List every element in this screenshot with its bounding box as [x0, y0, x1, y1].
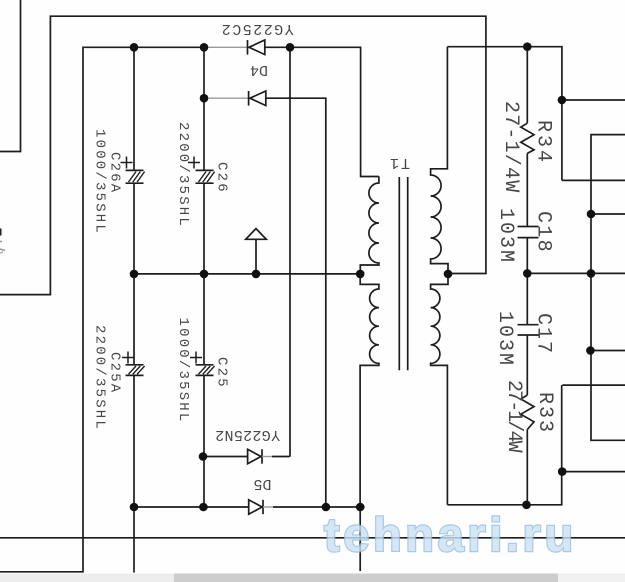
node right out y=100: [558, 96, 567, 105]
wire R34 to C18: [526, 153, 528, 226]
wire full width bottom: [0, 537, 625, 539]
capacitor C25: [196, 365, 215, 376]
node right out y=350.5: [586, 346, 595, 355]
node center / right tap: [444, 270, 453, 279]
wire top-left stub: [0, 0, 21, 152]
node top bus / rail 290: [286, 43, 295, 52]
node D4 row / rail 204: [200, 94, 209, 103]
wire R34 top lead: [526, 47, 528, 124]
svg-text:1000/35SHL: 1000/35SHL: [175, 318, 191, 424]
wire rail x=204 middle: [203, 183, 205, 365]
capacitor C26A: [126, 170, 145, 183]
node top bus / rail 204: [200, 43, 209, 52]
plus sign of C25A: [122, 352, 134, 364]
node center / rail 204: [200, 270, 209, 279]
transformer T1 left lower winding: [360, 274, 379, 507]
wire right bus top: [447, 47, 562, 181]
wire rail x=290: [289, 47, 291, 456]
svg-text:tehnari.ru: tehnari.ru: [324, 508, 577, 561]
node center out / x=591: [587, 269, 596, 278]
wire bottom bus left part: [134, 506, 249, 508]
wire rail x=204 upper: [203, 47, 205, 170]
wire grey anode lead of YG225C2: [204, 46, 248, 48]
wire outer border loop to right center tap: [0, 16, 486, 294]
svg-text:27-1/4W: 27-1/4W: [502, 380, 525, 453]
svg-text:D5: D5: [253, 475, 271, 492]
svg-text:D4: D4: [250, 61, 268, 78]
node bottom bus / D4 branch: [322, 503, 331, 512]
plus sign of C25: [190, 352, 202, 364]
node center / C17 C18: [523, 269, 532, 278]
node center / left tap: [356, 270, 365, 279]
bottom scrollbar band right: [558, 574, 625, 582]
wire horizontal out y=471.6: [562, 471, 625, 473]
wire R33 bottom lead: [526, 430, 528, 505]
wire C18 to center: [526, 238, 528, 274]
wire horizontal out y=100: [562, 99, 625, 101]
svg-text:2200/35SHL: 2200/35SHL: [92, 325, 108, 431]
wire top bus from diode to transformer drop: [265, 47, 379, 176]
wire D4 branch down to bottom bus: [266, 98, 326, 507]
wire YG225N2 row lead: [203, 456, 248, 458]
node right bottom bus / R33: [522, 501, 531, 510]
wire YG225N2 row to rail: [272, 456, 289, 459]
svg-text:2200/35SHL: 2200/35SHL: [175, 122, 191, 228]
left edge text fragment: [0, 229, 5, 254]
transformer T1 right upper winding: [431, 47, 448, 274]
transformer T1 left upper winding: [360, 177, 379, 274]
svg-text:T1: T1: [388, 154, 410, 171]
capacitor C26: [196, 170, 215, 183]
svg-text:C18: C18: [532, 211, 555, 254]
svg-text:103M: 103M: [494, 208, 517, 264]
node center / rail 134: [130, 270, 139, 279]
wire rail x=134 upper: [133, 47, 135, 170]
svg-text:1000/35SHL: 1000/35SHL: [92, 129, 108, 235]
resistor R34: [521, 123, 534, 153]
svg-text:103M: 103M: [493, 311, 516, 367]
svg-text:YG225C2: YG225C2: [220, 20, 294, 37]
diode D5 (points right): [249, 500, 263, 514]
svg-text:YG225N2: YG225N2: [215, 426, 280, 443]
node arrow symbol at center bus: [246, 229, 267, 274]
wire center to C17: [526, 273, 528, 324]
node YG225N2 row / rail 204: [199, 452, 208, 461]
diode D4 (points left): [249, 91, 266, 106]
wire horizontal out y=214: [591, 213, 625, 215]
wire grey anode lead of D4: [204, 97, 249, 99]
wire grey cathode lead of D5: [263, 506, 273, 508]
node bottom bus / rail 204: [199, 503, 208, 512]
node right bus / R34: [523, 42, 532, 51]
wire rail x=204 lower: [203, 375, 205, 507]
wire grey cathode lead of YG225N2: [262, 456, 272, 458]
wire horizontal out y=180.4: [562, 179, 625, 181]
capacitor C18: [518, 227, 539, 238]
wire center bus left: [134, 273, 360, 275]
resistor R33: [521, 395, 534, 429]
wire right vertical x=591 with stubs: [591, 135, 625, 441]
diode YG225C2 (points left): [248, 40, 265, 55]
node right out y=471.6: [558, 467, 567, 476]
wire horizontal out y=350.5: [590, 350, 625, 352]
wire bottom bus right part: [273, 506, 365, 508]
node right out y=214: [587, 210, 596, 219]
svg-text:R34: R34: [532, 120, 555, 165]
wire bottom-left L and top bus start: [0, 47, 204, 572]
transformer T1 core: [399, 177, 407, 370]
capacitor C25A: [126, 365, 145, 376]
svg-text:R33: R33: [533, 392, 556, 434]
wire right bottom bus: [447, 385, 561, 505]
node bottom bus / rail 134: [130, 503, 139, 512]
diode YG225N2 (points right): [248, 449, 262, 463]
svg-text:C25: C25: [214, 357, 230, 389]
svg-text:C17: C17: [532, 313, 555, 355]
bottom scrollbar band left: [0, 574, 174, 582]
svg-text:27-1/4W: 27-1/4W: [499, 101, 522, 193]
wire center bus right with output: [528, 272, 625, 274]
node top bus / rail 134: [130, 43, 139, 52]
wire rail x=134 middle: [133, 183, 135, 365]
node center / arrow stem: [252, 270, 261, 279]
wire C17 to R33: [526, 335, 528, 395]
wire horizontal out y=385.1: [562, 384, 625, 386]
bottom scrollbar band middle: [174, 574, 558, 582]
plus sign of C26A: [121, 157, 133, 169]
svg-text:C26A: C26A: [107, 152, 123, 194]
wire rail x=134 lower: [133, 375, 135, 572]
wire below left tap to bottom: [359, 507, 361, 571]
svg-text:C25A: C25A: [107, 352, 123, 394]
node bottom bus / left tap rail: [356, 503, 365, 512]
plus sign of C26: [188, 157, 200, 169]
capacitor C17: [518, 325, 539, 335]
transformer T1 right lower winding: [431, 274, 448, 505]
svg-text:C26: C26: [214, 162, 230, 194]
